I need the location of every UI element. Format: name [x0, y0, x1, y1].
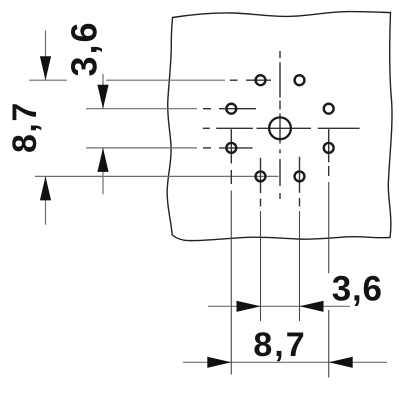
- extension line row1: [106, 79, 225, 81]
- centerline row1 cross through hole A: [246, 79, 271, 81]
- centerline column c1 through hole E: [230, 129, 232, 163]
- centerline row3 cross through hole E: [219, 147, 253, 149]
- arrow 3,6 bottom right (left): [300, 301, 324, 312]
- extension line column c3 down: [299, 211, 301, 321]
- svg-text:8,7: 8,7: [253, 326, 306, 364]
- arrow 8,7 left top (down): [40, 56, 51, 80]
- tick row1 left: [29, 79, 67, 81]
- arrow 3,6 left top (down): [97, 85, 108, 109]
- extension line column c2 down: [260, 211, 262, 321]
- dimension line 8,7 left lower segment: [45, 176, 47, 224]
- hole F: [324, 143, 334, 153]
- dimension line 3,6 left upper segment: [102, 74, 104, 109]
- dimension line 3,6 bottom: [208, 305, 350, 307]
- svg-text:3,6: 3,6: [64, 20, 105, 76]
- arrow 8,7 left bottom (up): [40, 176, 51, 200]
- centerline center row dash left: [203, 127, 210, 129]
- extension line row4: [35, 175, 279, 177]
- arrow 3,6 bottom left (right): [237, 301, 261, 312]
- hole C: [226, 104, 236, 114]
- centerline center column dash below hole: [279, 149, 281, 153]
- extension line row2: [86, 108, 197, 110]
- centerline column c4 through hole F: [328, 129, 330, 162]
- centerline column c4 dash: [328, 166, 330, 176]
- extension line column c4 down lower part: [328, 310, 330, 378]
- dimension line 8,7 left upper segment: [45, 30, 47, 80]
- extension line row3: [86, 147, 197, 149]
- dimension line 8,7 bottom: [183, 361, 387, 363]
- svg-text:8,7: 8,7: [6, 101, 44, 153]
- centerline row2 dash: [203, 108, 211, 110]
- hole B: [295, 75, 305, 85]
- arrow 8,7 bottom right (left): [329, 357, 353, 368]
- arrow 8,7 bottom left (right): [207, 357, 231, 368]
- centerline column c3 dash: [299, 198, 301, 207]
- hole G: [256, 171, 266, 181]
- extension line column c4 down upper part: [328, 182, 330, 273]
- centerline center row segment left: [216, 127, 253, 129]
- dimension line 3,6 left lower segment: [102, 148, 104, 194]
- centerline center column dash bottom: [279, 193, 281, 199]
- centerline center column dash top: [279, 51, 281, 58]
- centerline row3 dash: [203, 147, 211, 149]
- centerline center column dash above hole: [279, 101, 281, 110]
- hole A: [256, 75, 266, 85]
- svg-text:3,6: 3,6: [332, 269, 383, 308]
- hole H: [295, 171, 305, 181]
- hole E: [226, 143, 236, 153]
- center hole: [269, 117, 291, 139]
- centerline column c2 through hole G: [260, 158, 262, 193]
- centerline center column segment upper: [279, 62, 281, 97]
- centerline center row segment right: [318, 127, 360, 129]
- panel outline (broken-out square plate, wavy edges): [167, 12, 392, 241]
- extension line column c1 down: [230, 191, 232, 375]
- centerline column c3 through hole H: [299, 157, 301, 193]
- centerline center row through big hole: [257, 127, 312, 129]
- centerline center column through big hole: [279, 114, 281, 144]
- centerline center column segment lower: [279, 159, 281, 186]
- centerline row1 dash: [230, 79, 238, 81]
- centerline column c2 dash: [260, 199, 262, 207]
- arrow 3,6 left bottom (up): [97, 148, 108, 172]
- centerline row2 cross through hole C: [219, 108, 256, 110]
- hole D: [324, 104, 334, 114]
- centerline column c1 dash: [230, 170, 232, 184]
